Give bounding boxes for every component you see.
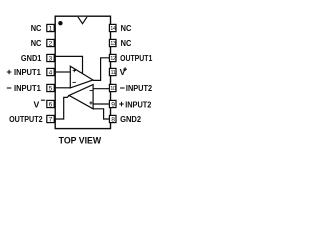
pin box 5 <box>47 84 54 92</box>
op-amp A2 triangle (points left) <box>69 85 93 109</box>
svg-text:TOP VIEW: TOP VIEW <box>59 134 102 145</box>
label pin11 V+ <box>120 67 127 77</box>
svg-text:NC: NC <box>31 23 42 33</box>
pin box 12 <box>109 54 116 62</box>
svg-text:2: 2 <box>49 40 53 47</box>
wire A2 output to pin7 OUTPUT2 <box>55 96 69 119</box>
wire pin9 +INPUT2 to A2 <box>93 103 110 105</box>
svg-text:NC: NC <box>121 23 132 33</box>
svg-text:1: 1 <box>49 25 53 32</box>
pin box 9 <box>109 100 116 108</box>
svg-text:INPUT1: INPUT1 <box>14 67 41 77</box>
pin box 7 <box>47 115 54 123</box>
svg-text:9: 9 <box>111 101 115 108</box>
svg-text:7: 7 <box>49 116 53 123</box>
pin box 6 <box>47 100 54 108</box>
svg-text:GND1: GND1 <box>21 53 42 63</box>
package notch <box>78 17 87 24</box>
label pin10 -INPUT2 <box>120 83 152 93</box>
pin box 10 <box>109 84 116 92</box>
pin box 11 <box>109 68 116 76</box>
op-amp A1 minus input sign <box>73 81 76 83</box>
pin box 8 <box>109 115 116 123</box>
pin box 1 <box>47 24 54 32</box>
svg-text:8: 8 <box>111 116 115 123</box>
svg-text:12: 12 <box>110 56 116 62</box>
pin-1 index dot <box>58 21 62 25</box>
svg-text:13: 13 <box>110 41 116 47</box>
pin box 3 <box>47 54 54 62</box>
op-amp A1 plus input sign <box>73 69 76 72</box>
svg-text:3: 3 <box>49 55 53 62</box>
svg-text:INPUT1: INPUT1 <box>14 83 41 93</box>
IC package U1 body (DIP-14 outline) <box>55 16 110 128</box>
pin box 2 <box>47 39 54 47</box>
wire pin5 -INPUT1 to A1 <box>55 87 70 89</box>
pin box 4 <box>47 68 54 76</box>
svg-text:5: 5 <box>49 85 53 92</box>
op-amp A2 plus input sign <box>89 101 92 104</box>
svg-text:V: V <box>34 99 40 109</box>
wire pin3 GND1 to A1 top edge <box>55 56 83 73</box>
label pin9 +INPUT2 <box>119 99 151 109</box>
wire pin10 -INPUT2 to A2 <box>93 88 110 90</box>
svg-text:14: 14 <box>110 26 116 32</box>
label pin6 V- <box>34 99 46 109</box>
op-amp A1 triangle <box>70 66 93 88</box>
svg-text:OUTPUT1: OUTPUT1 <box>120 53 152 63</box>
wire A1 output to pin12 OUTPUT1 <box>93 58 110 81</box>
svg-text:INPUT2: INPUT2 <box>126 83 152 93</box>
svg-text:6: 6 <box>49 101 53 108</box>
pin box 13 <box>109 39 116 47</box>
svg-text:4: 4 <box>49 69 53 76</box>
svg-text:NC: NC <box>121 38 132 48</box>
svg-text:INPUT2: INPUT2 <box>125 99 151 109</box>
label pin5 -INPUT1 <box>7 83 41 93</box>
label pin4 +INPUT1 <box>7 67 41 77</box>
svg-text:11: 11 <box>110 70 115 76</box>
svg-text:OUTPUT2: OUTPUT2 <box>9 114 43 124</box>
wire pin4 +INPUT1 to A1 <box>55 71 70 73</box>
svg-text:NC: NC <box>31 38 42 48</box>
wire A2 bottom corner to pin8 GND2 <box>93 109 110 119</box>
op-amp A2 minus input sign <box>90 90 93 92</box>
svg-text:10: 10 <box>110 86 116 92</box>
svg-text:GND2: GND2 <box>120 114 141 124</box>
pin box 14 <box>109 24 116 32</box>
